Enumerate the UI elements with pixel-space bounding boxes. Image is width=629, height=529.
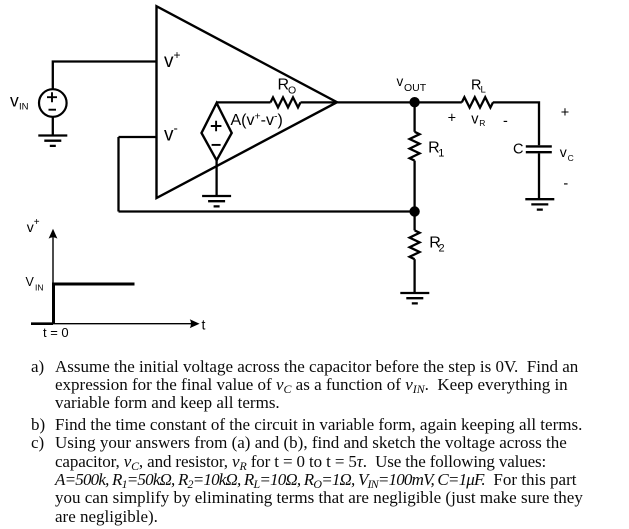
svg-text:C: C	[513, 142, 523, 158]
node VOUT dot	[409, 97, 419, 107]
svg-text:-: -	[563, 176, 568, 192]
svg-text:A(v+-v-): A(v+-v-)	[231, 111, 283, 130]
svg-text:v: v	[10, 91, 19, 111]
plus mark (dependent source)	[211, 121, 222, 132]
ground (capacitor)	[525, 199, 554, 209]
svg-text:L: L	[481, 85, 486, 96]
wire feedback bottom horizontal to node	[119, 210, 415, 212]
plus mark (VIN source)	[47, 92, 57, 102]
svg-text:v+: v+	[27, 217, 40, 235]
resistor R2 zigzag	[410, 230, 420, 259]
svg-text:IN: IN	[19, 102, 29, 113]
wire Ro to apex to VOUT to RL	[301, 101, 462, 103]
wire v- stub	[119, 136, 157, 138]
svg-text:+: +	[448, 111, 456, 127]
graph x-axis t	[31, 323, 193, 325]
source VIN circle	[39, 89, 67, 117]
svg-text:+: +	[561, 105, 569, 121]
wire R1 to node	[413, 161, 415, 212]
svg-text:R: R	[479, 118, 485, 128]
svg-text:v: v	[560, 144, 567, 160]
wire feedback left vertical	[117, 137, 119, 212]
op-amp U1 triangle	[157, 6, 338, 198]
svg-text:v: v	[471, 112, 479, 128]
dependent source A(v+-v-) diamond	[202, 103, 232, 160]
graph step waveform thick pre-step segment	[31, 322, 53, 325]
ground (dependent source)	[202, 196, 231, 206]
svg-text:t: t	[202, 317, 206, 333]
capacitor C plates	[526, 146, 552, 152]
wire capacitor bottom to ground	[538, 153, 540, 199]
svg-text:v+: v+	[164, 48, 181, 72]
minus mark (dependent source)	[212, 144, 221, 146]
wire VIN top to op-amp v+	[53, 62, 157, 90]
resistor Ro zigzag	[271, 97, 301, 107]
wire diamond top to Ro	[217, 101, 271, 103]
wire VIN bottom to ground	[52, 117, 54, 136]
svg-text:1: 1	[438, 148, 444, 160]
resistor R1 zigzag	[410, 132, 420, 161]
graph step waveform	[52, 284, 135, 324]
node (feedback junction) dot	[409, 206, 419, 216]
svg-text:t = 0: t = 0	[43, 325, 69, 340]
wire VOUT to R1	[413, 102, 415, 132]
svg-text:O: O	[288, 85, 296, 97]
resistor RL zigzag	[462, 97, 493, 107]
svg-text:C: C	[568, 153, 574, 163]
ground (R2)	[400, 293, 429, 303]
svg-text:OUT: OUT	[404, 82, 427, 94]
ground (VIN source)	[38, 136, 67, 146]
svg-text:2: 2	[439, 243, 445, 255]
graph y-axis v+	[52, 238, 54, 324]
svg-text:v: v	[397, 74, 404, 89]
svg-text:V: V	[26, 275, 35, 289]
wire RL to capacitor top	[493, 102, 539, 145]
graph x-axis arrowhead	[190, 319, 200, 328]
svg-text:IN: IN	[35, 283, 44, 293]
wire diamond bottom to ground	[215, 160, 217, 196]
minus mark (VIN source)	[49, 109, 57, 111]
wire node to R2	[413, 212, 415, 231]
svg-text:-: -	[503, 114, 508, 130]
graph y-axis arrowhead	[49, 229, 58, 239]
svg-text:v-: v-	[164, 121, 178, 146]
wire R2 to ground	[413, 259, 415, 293]
